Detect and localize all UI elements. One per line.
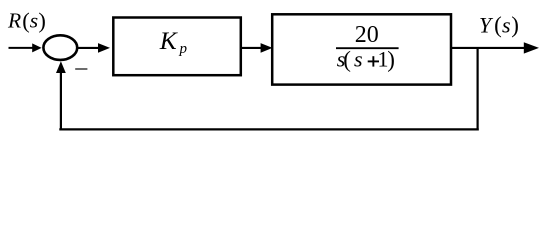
fraction bar [336, 47, 399, 49]
block plant 20/s(s+1) [272, 14, 451, 84]
svg-text:p: p [179, 41, 188, 57]
svg-text:): ) [38, 8, 46, 33]
svg-text:R: R [7, 9, 21, 33]
wire feedback branch down from output node [477, 48, 479, 131]
wire feedback up into summing junction [56, 61, 66, 130]
svg-text:): ) [387, 47, 395, 72]
svg-text:(: ( [343, 47, 351, 72]
svg-text:): ) [511, 13, 519, 38]
svg-text:20: 20 [355, 22, 379, 48]
wire plant block to output [452, 42, 539, 53]
label s(s+1) denominator [337, 47, 395, 72]
block Kp [113, 18, 241, 76]
svg-text:s: s [30, 9, 38, 33]
svg-text:K: K [159, 26, 179, 55]
svg-text:(: ( [494, 13, 502, 38]
wire feedback bottom run [59, 128, 478, 130]
wire Kp block to plant block [242, 43, 273, 53]
svg-text:s: s [502, 12, 511, 37]
svg-text:s: s [354, 47, 363, 72]
svg-text:Y: Y [479, 12, 494, 37]
node Y(s) output label [479, 12, 519, 37]
svg-text:(: ( [22, 8, 30, 33]
wire summing junction to Kp block [78, 43, 111, 53]
wire input arrow into summing junction [9, 43, 42, 52]
minus sign at summing junction [75, 68, 87, 70]
summing junction [43, 35, 77, 60]
label Kp [159, 26, 188, 57]
